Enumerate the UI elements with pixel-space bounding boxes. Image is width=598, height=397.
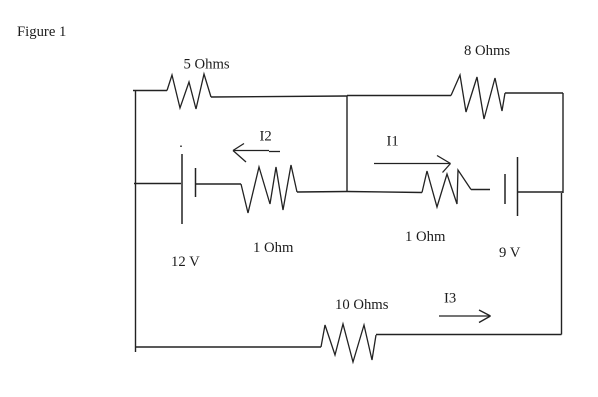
svg-text:1 Ohm: 1 Ohm [253, 240, 294, 256]
svg-text:10 Ohms: 10 Ohms [335, 297, 389, 313]
resistor R3 1 Ohm left [241, 165, 297, 213]
battery V2 9 V [505, 157, 518, 216]
wire top-middle horizontal [211, 96, 347, 97]
battery V1 12 V [181, 146, 196, 225]
wire battery to left 1 Ohm resistor [196, 183, 241, 185]
svg-text:5 Ohms: 5 Ohms [184, 57, 230, 73]
wire right vertical lower [561, 193, 563, 335]
svg-text:1 Ohm: 1 Ohm [405, 229, 446, 245]
svg-text:12 V: 12 V [171, 254, 200, 270]
wire right 1 Ohm to battery [471, 189, 490, 191]
current arrow I2 [233, 144, 280, 163]
resistor R5 10 Ohms [321, 324, 376, 362]
svg-text:I1: I1 [387, 134, 399, 150]
wire left 1 Ohm to middle junction [297, 191, 347, 194]
wire right vertical upper [562, 93, 564, 193]
resistor R1 5 Ohms [167, 74, 211, 109]
wire top-right to corner [505, 92, 563, 94]
svg-text:I2: I2 [260, 129, 272, 145]
current arrow I3 [439, 310, 491, 323]
current arrow I1 [374, 156, 451, 173]
svg-text:9 V: 9 V [499, 245, 521, 261]
svg-text:8 Ohms: 8 Ohms [464, 43, 510, 59]
wire top-left horizontal [133, 90, 167, 92]
wire battery 9V to right vertical [518, 191, 563, 193]
svg-text:Figure 1: Figure 1 [17, 24, 66, 40]
wire middle vertical junction [346, 96, 348, 192]
resistor R4 1 Ohm right [422, 170, 471, 207]
wire middle junction to right 1 Ohm resistor [347, 192, 422, 193]
wire bottom-left horizontal [135, 346, 321, 348]
resistor R2 8 Ohms [451, 75, 505, 119]
wire middle-left horizontal [134, 183, 181, 185]
wire left vertical [135, 90, 137, 352]
wire top-right horizontal [347, 95, 451, 97]
svg-text:I3: I3 [444, 291, 456, 307]
wire bottom-right horizontal [376, 334, 562, 336]
